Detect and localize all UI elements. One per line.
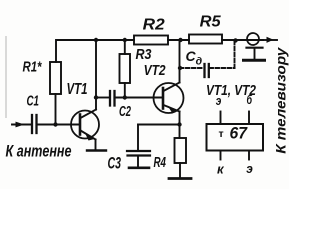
wire top rail left segment: [56, 40, 134, 62]
resistor R5: [189, 35, 222, 44]
capacitor C2: [109, 91, 111, 106]
ground under C3: [129, 167, 149, 170]
svg-text:VT2: VT2: [144, 63, 166, 79]
input arrow: [16, 122, 25, 128]
svg-text:Cд: Cд: [186, 48, 203, 68]
capacitor C3: [127, 150, 150, 152]
transistor VT2: [154, 83, 184, 113]
node dot VT2 collector rail: [178, 38, 182, 42]
pinout box t67: [207, 124, 264, 151]
svg-text:э: э: [246, 162, 253, 176]
svg-text:К телевизору: К телевизору: [273, 46, 289, 153]
connector socket circle: [247, 33, 259, 45]
node dot R3 bottom: [123, 95, 127, 99]
wire top rail R2 to R5: [168, 39, 189, 41]
svg-text:т: т: [219, 128, 224, 140]
wire connector chord and output lead: [242, 39, 263, 41]
svg-text:б: б: [247, 93, 254, 107]
svg-text:VT1: VT1: [67, 81, 88, 98]
svg-text:э: э: [216, 94, 222, 108]
node dot C4 tap: [178, 66, 182, 70]
resistor R2: [134, 36, 168, 45]
capacitor C1: [31, 115, 33, 133]
resistor R1: [50, 62, 61, 94]
svg-text:67: 67: [230, 125, 248, 143]
wire VT1 collector to C2: [96, 97, 110, 99]
svg-text:К антенне: К антенне: [6, 142, 72, 161]
output arrow: [267, 37, 274, 43]
VT2 emitter arrow: [168, 106, 178, 114]
svg-text:C2: C2: [119, 104, 131, 120]
capacitor C4 plates: [203, 64, 205, 77]
node dot input/R1: [53, 122, 57, 126]
node dot VT2 emitter: [177, 122, 181, 126]
svg-text:R3: R3: [136, 47, 152, 63]
scan artifact line: [5, 36, 7, 118]
svg-text:C3: C3: [108, 155, 122, 173]
resistor R4: [179, 125, 181, 139]
wire top rail R5 to connector: [222, 39, 247, 41]
svg-text:к: к: [217, 163, 224, 177]
svg-text:R5: R5: [200, 14, 221, 31]
ground under VT1: [87, 149, 106, 151]
node dot VT1 collector C2 tap: [94, 95, 98, 99]
node dot C4 return rail: [233, 38, 237, 42]
resistor R3: [120, 54, 131, 83]
wire input line: [12, 124, 31, 126]
transistor VT1: [71, 111, 99, 139]
wire C2 to VT2 base: [115, 97, 163, 99]
capacitor C4 dashed links: [180, 67, 203, 69]
svg-text:R1*: R1*: [23, 59, 43, 75]
connector ground: [247, 47, 263, 49]
svg-text:C1: C1: [27, 93, 40, 109]
svg-text:R2: R2: [143, 16, 165, 33]
VT1 emitter arrow: [85, 132, 94, 141]
svg-text:R4: R4: [154, 155, 167, 171]
pinout box leads: [220, 112, 222, 125]
ground under R4: [169, 177, 191, 180]
node dot VT1 collector rail: [94, 38, 98, 42]
node dot R3 rail: [123, 38, 127, 42]
wire VT2 emitter node: [138, 124, 180, 126]
